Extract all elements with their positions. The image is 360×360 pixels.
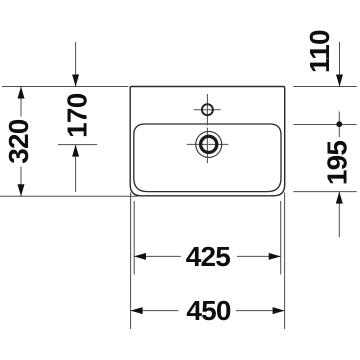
faucet hole crosshair <box>194 94 221 125</box>
drain inner circle <box>201 136 217 152</box>
drain outer circle <box>196 131 222 157</box>
svg-text:195: 195 <box>321 141 352 186</box>
dimension 110 leader <box>339 42 341 87</box>
washbasin outer rim <box>130 87 285 196</box>
washbasin inner bowl <box>134 124 281 192</box>
drain centre reference line (y=144.6) <box>58 144 97 146</box>
dimension 425 arrow right <box>269 253 281 260</box>
dimension 450 arrow left <box>131 307 143 314</box>
dimension 170 lower leader <box>75 145 77 192</box>
dimension 320 arrow down <box>18 184 25 196</box>
dimension 320 line <box>20 87 22 197</box>
dimension 170 upper leader <box>75 42 77 87</box>
extension line inner-bottom-right (y=191.6) <box>293 191 356 193</box>
extension line bottom-left (y=196.3) <box>0 195 139 197</box>
svg-text:320: 320 <box>3 119 34 164</box>
dimension 195 arrow up <box>336 192 343 204</box>
extension lines for 450 <box>131 193 285 330</box>
extension line top-right (y=86.5) <box>293 86 356 88</box>
dimension 170 arrow up <box>72 145 79 157</box>
dimension 195 leader <box>338 192 340 237</box>
dimension 425 arrow left <box>134 253 146 260</box>
svg-text:425: 425 <box>186 241 231 272</box>
dimension 170 arrow down <box>72 75 79 87</box>
dimension 450 line <box>131 310 285 312</box>
reference dot on inner edge line <box>338 112 340 138</box>
dimension 450 arrow right <box>273 307 285 314</box>
faucet hole circle <box>202 104 213 115</box>
svg-text:110: 110 <box>304 30 335 73</box>
extension lines for 425 <box>134 201 281 275</box>
drain crosshair <box>187 128 229 164</box>
dimension 320 arrow up <box>18 87 25 99</box>
svg-text:170: 170 <box>62 93 93 138</box>
extension line top-left (y=86.5) <box>2 86 129 88</box>
dimension 110 arrow down <box>336 75 343 87</box>
dimension 425 line <box>134 255 281 257</box>
svg-text:450: 450 <box>186 295 231 326</box>
extension line inner-top-right (y=123.8) <box>293 124 356 126</box>
